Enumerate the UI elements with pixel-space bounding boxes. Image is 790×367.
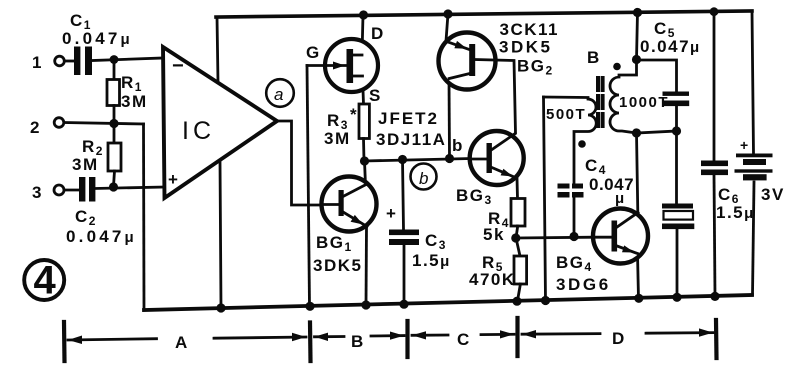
svg-text:3DK5: 3DK5	[313, 256, 362, 275]
JFET channel bar	[347, 49, 354, 83]
resistor R5	[516, 238, 520, 256]
node BG2 collector / b wire	[445, 154, 454, 163]
svg-text:+: +	[168, 170, 179, 189]
svg-text:5k: 5k	[483, 225, 505, 244]
svg-text:C2: C2	[75, 207, 97, 228]
node input2/R1/R2 junction	[109, 119, 118, 128]
svg-text:S: S	[369, 86, 382, 105]
capacitor C6	[713, 12, 716, 161]
svg-text:3: 3	[32, 183, 43, 202]
dimension line C right arrow	[481, 333, 514, 336]
transformer B 500T left lead down to rail	[544, 97, 546, 301]
JFET drain lead inside	[352, 54, 362, 57]
wire JFET source to R3	[363, 76, 364, 104]
wire 1000T bottom down to BG4 collector	[637, 133, 638, 213]
wire R4/R5 node to BG4 base	[516, 236, 594, 240]
svg-text:R1: R1	[121, 73, 143, 94]
svg-text:470K: 470K	[469, 270, 516, 289]
JFET gate lead with arrow	[307, 64, 346, 67]
svg-text:IC: IC	[182, 117, 215, 145]
svg-text:3DJ11A: 3DJ11A	[376, 130, 446, 149]
crystal resonator	[675, 131, 678, 204]
wire input1 to C1	[65, 60, 75, 63]
node C3 on ground rail	[399, 300, 408, 309]
wire top supply rail	[216, 11, 752, 17]
dimension line B left arrow	[315, 335, 345, 338]
transformer B 500T winding	[544, 97, 597, 184]
node BG4 emitter on ground rail	[634, 294, 643, 303]
svg-text:C4: C4	[585, 156, 607, 177]
wire input3 to C2	[65, 189, 80, 192]
capacitor C5	[637, 60, 677, 92]
svg-text:0.047μ: 0.047μ	[62, 29, 133, 48]
dimension tick 1	[62, 322, 67, 361]
svg-text:JFET2: JFET2	[378, 109, 439, 128]
node crystal top	[672, 126, 681, 135]
node BG2 emitter on top rail	[443, 9, 452, 18]
op-amp U1 IC triangle	[163, 47, 277, 198]
wire input2 line	[64, 123, 144, 125]
svg-text:1: 1	[32, 53, 43, 72]
wire left vertical down to ground rail	[142, 124, 145, 310]
terminal 1	[55, 56, 65, 66]
dimension line C left arrow	[412, 334, 448, 337]
svg-text:C: C	[457, 330, 471, 349]
transistor BG1	[365, 161, 366, 185]
svg-text:+: +	[386, 204, 397, 223]
svg-text:500T: 500T	[546, 106, 586, 123]
node R4/R5 junction	[511, 233, 520, 242]
node 1000T top junction	[632, 55, 641, 64]
transistor BG3	[516, 178, 519, 199]
node BG1 emitter on ground rail	[361, 300, 370, 309]
node C6 on top rail	[710, 7, 719, 16]
capacitor C1	[74, 47, 92, 76]
capacitor C3	[403, 160, 404, 230]
wire C2 to IC non-inverting input	[95, 187, 164, 189]
svg-text:3DG6: 3DG6	[556, 275, 611, 294]
node C3 top	[398, 155, 407, 164]
wire JFET drain to top rail	[362, 15, 363, 55]
svg-text:BG3: BG3	[456, 186, 493, 207]
node a circle	[266, 79, 294, 107]
resistor R1	[113, 60, 116, 80]
svg-text:+: +	[740, 137, 750, 153]
node IC negative pin on ground rail	[216, 303, 225, 312]
wire BG2 base to BG3 collector	[475, 60, 516, 134]
terminal 3	[54, 185, 64, 195]
wire BG2 emitter to top rail	[446, 14, 448, 42]
svg-text:3M: 3M	[324, 129, 351, 148]
wire C1 to IC inverting input	[92, 58, 163, 61]
svg-text:G: G	[306, 43, 321, 62]
svg-text:−: −	[172, 55, 185, 77]
JFET source lead inside	[352, 75, 363, 78]
phasing dot 1000T	[613, 63, 621, 71]
wire JFET gate vertical down to ground rail	[307, 66, 310, 307]
svg-text:C3: C3	[425, 231, 447, 252]
wire top rail down to 1000T node	[637, 13, 638, 60]
svg-text:0.047μ: 0.047μ	[640, 37, 701, 56]
svg-text:2: 2	[30, 118, 41, 137]
svg-text:BG2: BG2	[517, 57, 554, 78]
dimension line D left arrow	[522, 332, 600, 335]
node input1/R1 junction	[110, 55, 119, 64]
node on top rail above 1000T	[633, 8, 642, 17]
svg-text:BG4: BG4	[556, 253, 593, 274]
dimension line A left arrow	[68, 339, 157, 340]
node C4 bottom	[569, 232, 578, 241]
dimension tick 3	[405, 321, 409, 357]
node 1000T bottom junction	[632, 128, 641, 137]
capacitor C4	[558, 184, 584, 198]
svg-text:3CK11: 3CK11	[500, 20, 559, 39]
svg-text:1.5μ: 1.5μ	[716, 203, 755, 222]
svg-text:a: a	[274, 85, 285, 104]
node drain on top rail	[359, 10, 368, 19]
wire bottom ground rail	[144, 295, 752, 310]
svg-text:4: 4	[34, 259, 58, 303]
terminal 2	[54, 118, 64, 128]
transformer B 1000T winding	[610, 60, 637, 134]
svg-text:B: B	[587, 48, 601, 67]
node C6 on ground rail	[710, 292, 719, 301]
battery 3V	[752, 11, 754, 154]
transistor BG2 (PNP)	[448, 79, 451, 159]
svg-text:B: B	[351, 332, 365, 351]
svg-text:R3*: R3*	[327, 105, 358, 132]
svg-text:D: D	[612, 329, 626, 348]
svg-text:A: A	[175, 333, 189, 352]
resistor R4	[511, 199, 525, 227]
dimension tick 5	[714, 320, 719, 358]
svg-text:1000T: 1000T	[619, 94, 669, 111]
svg-text:3DK5: 3DK5	[499, 38, 552, 57]
resistor R3	[359, 104, 369, 139]
dimension tick 4	[515, 318, 519, 356]
wire IC output	[277, 121, 322, 205]
transistor BG4	[638, 254, 639, 299]
svg-text:3M: 3M	[72, 155, 99, 174]
figure number 4 circle	[24, 260, 64, 300]
wire 1000T bottom to crystal top	[637, 131, 677, 133]
svg-text:3M: 3M	[121, 92, 148, 111]
resistor R2	[113, 125, 116, 143]
transistor Q1 JFET body	[325, 39, 378, 92]
dimension line B right arrow	[371, 334, 404, 337]
wire IC negative pin to ground rail	[220, 161, 221, 308]
capacitor C2	[79, 177, 95, 202]
wire IC positive supply pin to top rail	[217, 17, 218, 82]
svg-text:3V: 3V	[761, 185, 785, 204]
svg-text:BG1: BG1	[316, 233, 353, 254]
svg-text:0.047μ: 0.047μ	[66, 227, 137, 246]
dimension line A right arrow	[214, 337, 306, 338]
phasing dot 500T	[578, 140, 586, 148]
dimension line D right arrow	[646, 331, 713, 334]
svg-text:b: b	[452, 136, 464, 155]
dimension tick 2	[308, 323, 313, 362]
node b circle	[411, 164, 437, 190]
node input3/R2 junction	[109, 182, 118, 191]
svg-text:μ: μ	[615, 190, 626, 207]
node R3/BG1 collector	[360, 156, 369, 165]
svg-text:0.047: 0.047	[589, 175, 634, 194]
node gate line on ground rail	[305, 302, 314, 311]
node 500T lead on ground rail	[541, 296, 550, 305]
svg-text:b: b	[419, 169, 430, 188]
node R5 on ground rail	[512, 297, 521, 306]
wire node b horizontal	[364, 159, 470, 162]
svg-text:1.5μ: 1.5μ	[412, 251, 451, 270]
transformer B core	[598, 78, 603, 129]
node crystal on ground rail	[672, 293, 681, 302]
svg-text:D: D	[371, 24, 385, 43]
